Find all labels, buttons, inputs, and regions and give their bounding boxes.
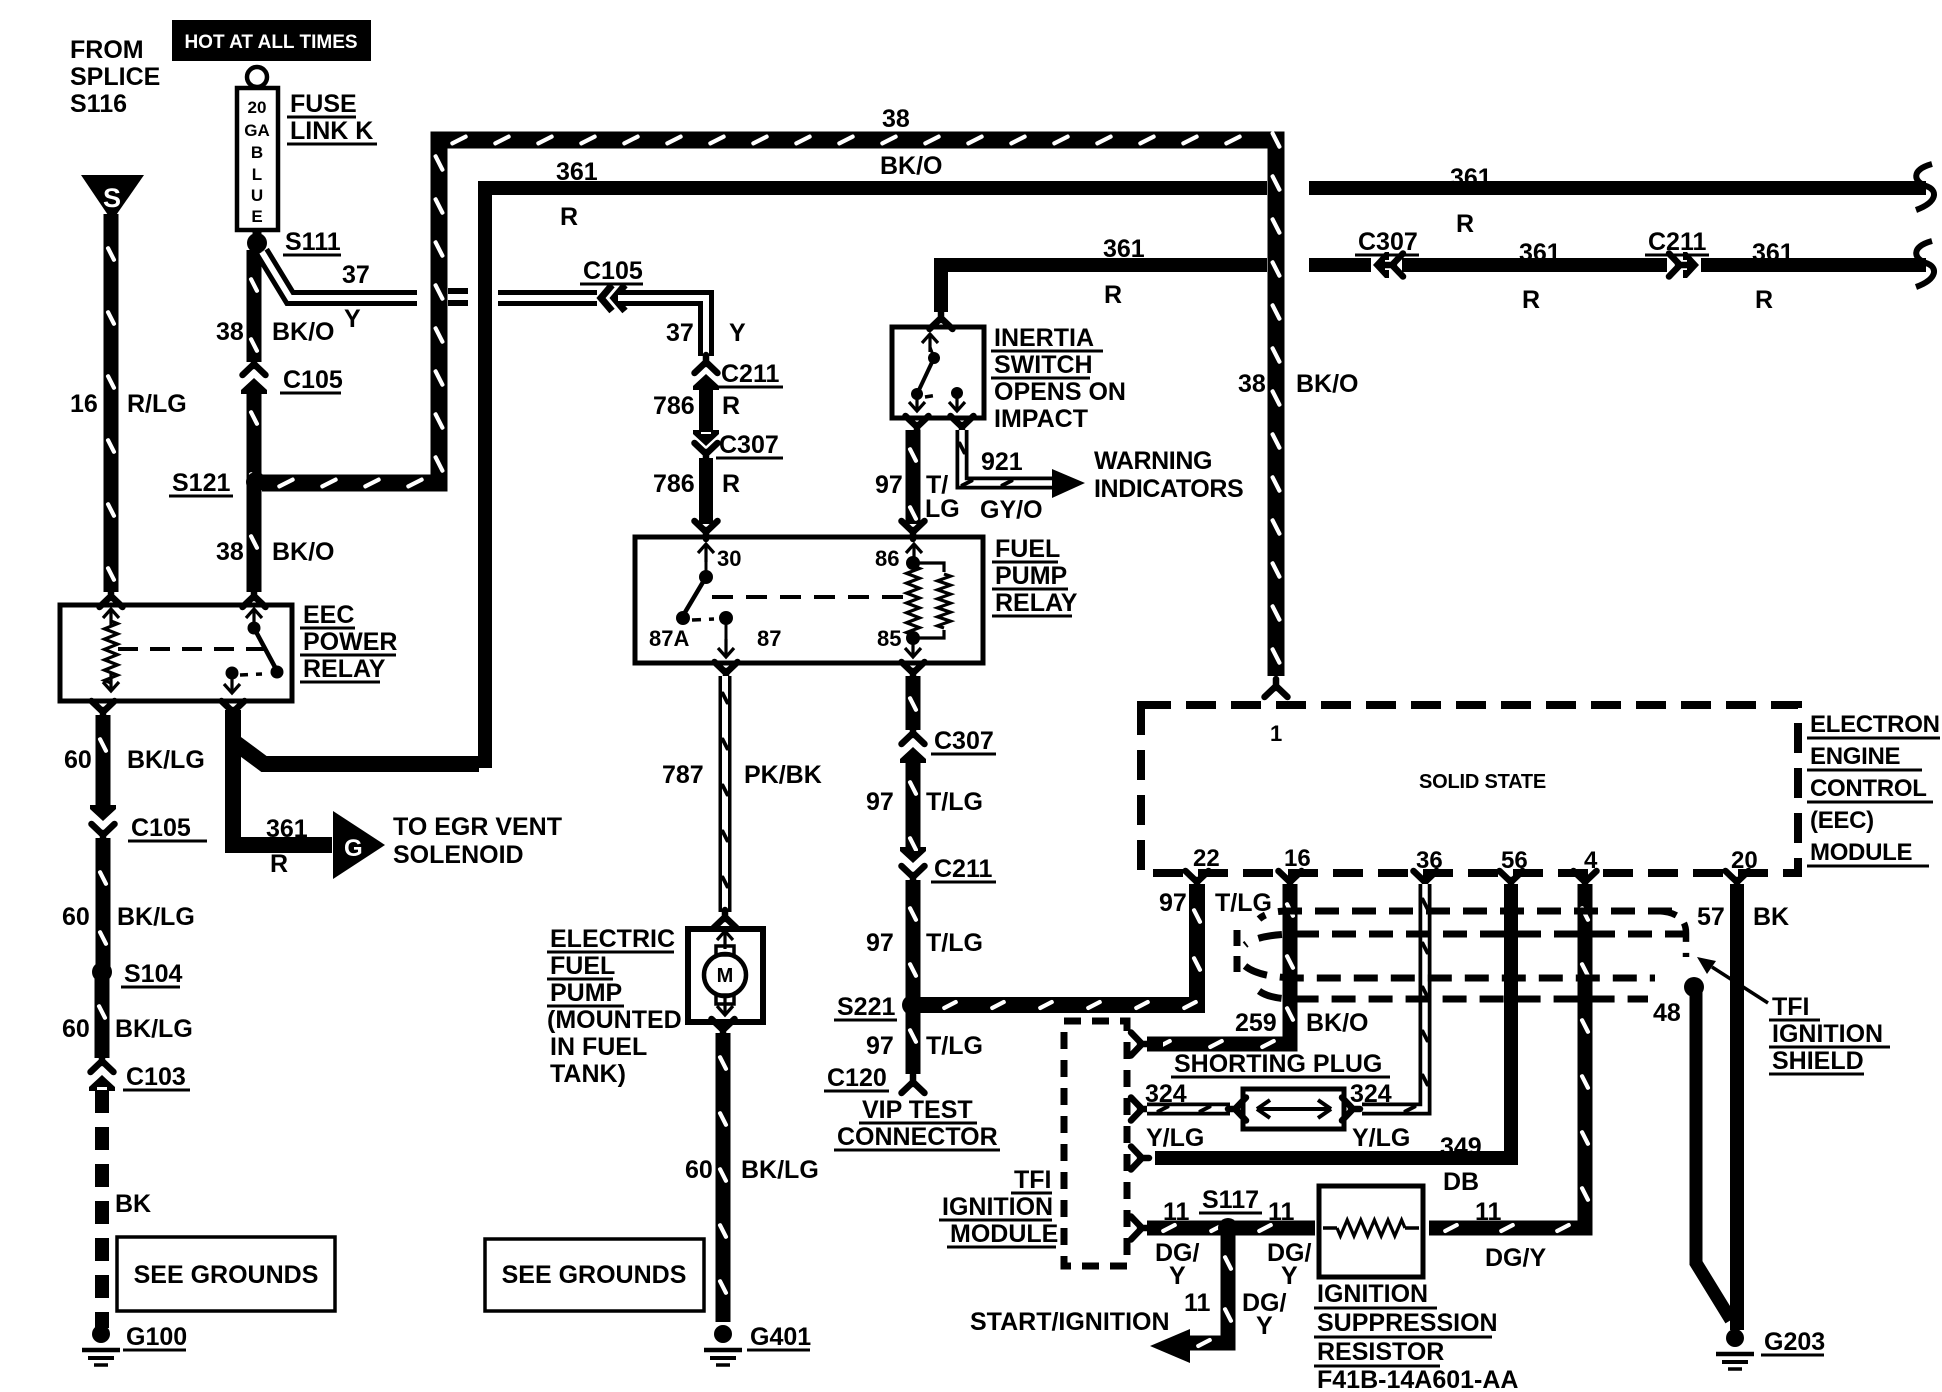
svg-text:22: 22 — [1193, 845, 1220, 872]
svg-text:CONTROL: CONTROL — [1810, 775, 1927, 802]
svg-text:87A: 87A — [649, 626, 689, 651]
svg-text:38: 38 — [882, 105, 910, 133]
fuel pump relay internals: pin 30 switch — [698, 544, 714, 562]
connector C105 on wire 38 — [242, 372, 266, 379]
svg-text:SHIELD: SHIELD — [1772, 1047, 1864, 1075]
svg-text:PUMP: PUMP — [995, 562, 1067, 590]
wire 361 R right of C211 — [1701, 258, 1926, 272]
svg-text:IGNITION: IGNITION — [942, 1193, 1053, 1221]
wire 37 Y right of crossing to C105 — [498, 290, 597, 306]
svg-text:97: 97 — [1159, 889, 1187, 917]
connector C211 on wire 37/786 — [695, 355, 718, 373]
svg-text:B: B — [251, 143, 263, 162]
svg-text:C211: C211 — [721, 360, 779, 388]
svg-text:60: 60 — [685, 1156, 713, 1184]
arrow to start/ignition — [1150, 1329, 1190, 1363]
svg-text:87: 87 — [757, 626, 781, 651]
wire 97 T/LG to C307 — [906, 676, 921, 730]
wire 921 GY/O — [962, 430, 1052, 483]
G arrow to EGR vent solenoid — [333, 811, 385, 879]
svg-text:259: 259 — [1235, 1009, 1277, 1037]
svg-text:C105: C105 — [583, 257, 643, 285]
svg-text:SHORTING PLUG: SHORTING PLUG — [1174, 1050, 1382, 1078]
EEC power relay connectors bottom — [92, 701, 115, 719]
svg-text:HOT AT ALL TIMES: HOT AT ALL TIMES — [184, 32, 357, 53]
svg-text:SPLICE: SPLICE — [70, 63, 160, 91]
svg-text:BK/O: BK/O — [272, 538, 335, 566]
svg-text:IGNITION: IGNITION — [1772, 1020, 1883, 1048]
svg-text:R: R — [722, 470, 740, 498]
svg-text:SEE GROUNDS: SEE GROUNDS — [502, 1261, 687, 1289]
wire 787 PK/BK — [719, 676, 732, 912]
svg-text:R: R — [722, 392, 740, 420]
TFI ignition shield pointer arrow — [1712, 967, 1768, 1003]
connector C211 — [901, 863, 925, 870]
arrow to warning indicators — [1052, 469, 1085, 498]
svg-text:Y: Y — [1281, 1262, 1298, 1290]
svg-text:IMPACT: IMPACT — [994, 405, 1088, 433]
TFI ignition shield dashed outline inner bottom — [1245, 966, 1655, 978]
svg-text:C211: C211 — [934, 855, 992, 883]
svg-text:BK: BK — [115, 1190, 151, 1218]
inertia switch internals — [922, 334, 938, 352]
fuel pump motor symbol — [717, 931, 733, 949]
svg-text:11: 11 — [1163, 1198, 1190, 1226]
svg-text:START/IGNITION: START/IGNITION — [970, 1308, 1170, 1336]
svg-text:60: 60 — [64, 746, 92, 774]
svg-text:LG: LG — [925, 495, 960, 523]
svg-text:R: R — [560, 203, 578, 231]
EEC module dashed box — [1141, 705, 1798, 873]
wire 37 Y from C105 to C211 — [618, 298, 706, 356]
connector at EEC module pin 1 — [1265, 679, 1288, 697]
ground G100 — [92, 1325, 110, 1343]
connector C307 — [901, 741, 925, 748]
svg-text:30: 30 — [717, 546, 741, 571]
svg-text:IN FUEL: IN FUEL — [550, 1033, 647, 1061]
svg-text:C105: C105 — [131, 814, 191, 842]
svg-text:S221: S221 — [837, 993, 895, 1021]
svg-text:OPENS ON: OPENS ON — [994, 378, 1126, 406]
wire 97 T/LG S221 to C120 — [906, 1010, 921, 1074]
svg-text:TFI: TFI — [1772, 993, 1810, 1021]
wire 97 T/LG S221 to EEC pin 22 — [920, 884, 1197, 1005]
TFI ignition shield dashed outline outer top — [1259, 911, 1672, 919]
svg-text:Y: Y — [1169, 1262, 1186, 1290]
connector at fuel pump top — [714, 910, 737, 928]
svg-text:38: 38 — [1238, 370, 1266, 398]
svg-text:R: R — [270, 850, 288, 878]
svg-text:361: 361 — [1103, 235, 1145, 263]
svg-text:VIP TEST: VIP TEST — [862, 1096, 973, 1124]
wire 349 DB pin 56 — [1155, 884, 1511, 1158]
connector C105 chevrons — [601, 285, 612, 311]
wire 361 R to inertia switch — [941, 265, 1267, 312]
wire 38 BK/O loop S121 to EEC module pin 1 — [262, 140, 1276, 676]
wire 361 R from EEC power relay to top run — [233, 710, 479, 764]
connector below fuel pump relay pin 87 — [715, 662, 738, 680]
TFI module connector forks — [1131, 1033, 1149, 1056]
connector C103 — [90, 1069, 114, 1076]
svg-text:TFI: TFI — [1014, 1166, 1052, 1194]
svg-text:BK/O: BK/O — [880, 152, 943, 180]
svg-text:86: 86 — [875, 546, 899, 571]
svg-text:97: 97 — [875, 471, 903, 499]
svg-text:C211: C211 — [1648, 228, 1706, 256]
svg-text:C103: C103 — [126, 1063, 186, 1091]
TFI ignition shield dashed outline outer bottom — [1259, 991, 1648, 999]
splice S221 — [902, 995, 922, 1015]
svg-text:EEC: EEC — [303, 601, 354, 629]
svg-text:TANK): TANK) — [550, 1060, 626, 1088]
wire 786 R from C307 to fuel pump relay — [699, 458, 713, 524]
svg-text:Y: Y — [1256, 1312, 1273, 1340]
TFI ignition shield dashed left bracket — [1234, 930, 1241, 978]
svg-text:C120: C120 — [827, 1064, 887, 1092]
svg-text:361: 361 — [1752, 239, 1794, 267]
svg-text:R: R — [1456, 210, 1474, 238]
wire stub fuse to S111 — [253, 229, 262, 245]
svg-text:L: L — [252, 165, 262, 184]
svg-text:Y/LG: Y/LG — [1146, 1124, 1204, 1152]
svg-text:F41B-14A601-AA: F41B-14A601-AA — [1317, 1366, 1518, 1392]
svg-text:S116: S116 — [70, 90, 127, 118]
svg-text:S117: S117 — [1202, 1186, 1259, 1214]
splice S117 — [1218, 1218, 1238, 1238]
EEC power relay box — [60, 605, 292, 701]
svg-text:786: 786 — [653, 470, 695, 498]
svg-text:57: 57 — [1697, 903, 1725, 931]
svg-text:ELECTRON: ELECTRON — [1810, 711, 1940, 738]
svg-text:PUMP: PUMP — [550, 979, 622, 1007]
wire 361 R between C307 and C211 — [1402, 258, 1667, 272]
connector at fuel pump relay pin 30 — [695, 521, 718, 539]
svg-text:RESISTOR: RESISTOR — [1317, 1338, 1444, 1366]
ignition suppression resistor box — [1319, 1186, 1423, 1277]
svg-text:97: 97 — [866, 929, 894, 957]
hot-at-all-times banner — [172, 20, 371, 61]
EEC pin connectors — [1186, 871, 1209, 889]
wire 259 BK/O pin 16 to TFI module — [1155, 884, 1290, 1044]
wire 11 DG/Y from S117 to start/ignition — [1188, 1233, 1228, 1343]
svg-text:BK/LG: BK/LG — [127, 746, 205, 774]
wire 37 Y from S111 — [262, 252, 417, 298]
svg-text:S111: S111 — [285, 228, 341, 256]
fuel pump relay box — [635, 537, 983, 663]
splice S111 — [247, 233, 267, 253]
svg-text:DB: DB — [1443, 1168, 1479, 1196]
svg-text:WARNING: WARNING — [1094, 447, 1212, 475]
svg-text:(EEC): (EEC) — [1810, 807, 1874, 834]
wire 57 BK pin 20 to G203 — [1730, 884, 1744, 1330]
svg-text:U: U — [251, 186, 263, 205]
svg-text:IGNITION: IGNITION — [1317, 1280, 1428, 1308]
svg-text:R: R — [1755, 286, 1773, 314]
shorting plug box — [1243, 1089, 1344, 1129]
svg-text:BK/LG: BK/LG — [115, 1015, 193, 1043]
wire 16 R/LG vertical — [104, 214, 119, 592]
wire 324 Y/LG left (striped) — [1147, 1103, 1230, 1116]
svg-text:GA: GA — [244, 121, 270, 140]
svg-text:SOLENOID: SOLENOID — [393, 841, 524, 869]
wire 48 to G203 — [1696, 990, 1731, 1320]
TFI shield dashed hook at 57 — [1658, 911, 1686, 957]
wire 11 DG/Y from TFI module with splice S117 — [1147, 1221, 1315, 1236]
svg-text:RELAY: RELAY — [995, 589, 1078, 617]
svg-text:Y: Y — [344, 305, 361, 333]
connector below fuel pump relay pin 85 — [902, 662, 925, 680]
fuel pump relay dashed link — [712, 595, 905, 599]
wire 11 DG/Y pin 4 — [1429, 884, 1585, 1228]
svg-text:11: 11 — [1184, 1289, 1211, 1317]
splice symbol S (from splice S116) — [81, 175, 144, 221]
svg-text:BK/LG: BK/LG — [741, 1156, 819, 1184]
svg-text:INDICATORS: INDICATORS — [1094, 475, 1243, 503]
ground G401 — [714, 1325, 732, 1343]
fuse link K symbol — [247, 67, 267, 87]
svg-text:60: 60 — [62, 903, 90, 931]
svg-text:361: 361 — [1450, 164, 1492, 192]
svg-text:T/LG: T/LG — [926, 788, 983, 816]
inertia switch box — [892, 327, 984, 418]
svg-text:Y/LG: Y/LG — [1352, 1124, 1410, 1152]
svg-text:37: 37 — [666, 319, 694, 347]
svg-text:85: 85 — [877, 626, 901, 651]
wire 786 R between C211 and C307 — [699, 386, 713, 432]
TFI ignition shield dashed outline inner top — [1245, 934, 1689, 945]
svg-text:RELAY: RELAY — [303, 655, 386, 683]
svg-text:FUSE: FUSE — [290, 90, 357, 118]
wire 38 BK/O from C105 to relay — [247, 388, 262, 592]
connector below inertia switch right — [951, 416, 974, 434]
svg-text:20: 20 — [248, 98, 267, 117]
connector C307 on 361 R — [1373, 252, 1389, 278]
svg-text:16: 16 — [70, 390, 98, 418]
svg-text:T/LG: T/LG — [926, 1032, 983, 1060]
svg-text:38: 38 — [216, 538, 244, 566]
svg-text:20: 20 — [1731, 847, 1758, 874]
svg-text:PK/BK: PK/BK — [744, 761, 822, 789]
svg-text:INERTIA: INERTIA — [994, 324, 1094, 352]
svg-text:R: R — [1522, 286, 1540, 314]
crossing mark = — [448, 288, 468, 294]
svg-text:324: 324 — [1350, 1080, 1392, 1108]
svg-text:ELECTRIC: ELECTRIC — [550, 925, 675, 953]
svg-text:SOLID STATE: SOLID STATE — [1419, 771, 1546, 793]
svg-text:S: S — [103, 183, 121, 213]
svg-text:G: G — [344, 835, 363, 862]
wire continuation squiggle — [1916, 241, 1934, 287]
wire 361 R top run right of crossing — [1309, 181, 1926, 195]
svg-text:787: 787 — [662, 761, 704, 789]
svg-text:R: R — [1104, 281, 1122, 309]
svg-text:LINK K: LINK K — [290, 117, 373, 145]
wire 97 T/LG C307 to C211 — [906, 758, 921, 852]
svg-text:60: 60 — [62, 1015, 90, 1043]
wire 97 T/LG to fuel pump relay — [906, 430, 921, 524]
wire 60 BK/LG C105 to S104 — [96, 838, 111, 968]
connector C307 on wire 786 — [693, 430, 719, 446]
svg-text:921: 921 — [981, 448, 1023, 476]
electric fuel pump box — [688, 929, 763, 1022]
svg-text:G401: G401 — [750, 1323, 811, 1351]
connector C120 VIP test connector — [902, 1075, 925, 1093]
EEC power relay connectors top — [100, 589, 123, 607]
svg-text:48: 48 — [1653, 999, 1681, 1027]
svg-text:SEE GROUNDS: SEE GROUNDS — [134, 1261, 319, 1289]
node 48 dot — [1684, 977, 1704, 997]
svg-text:97: 97 — [866, 788, 894, 816]
svg-text:BK: BK — [1753, 903, 1789, 931]
svg-text:C307: C307 — [934, 727, 994, 755]
see grounds box middle — [485, 1239, 704, 1311]
wire 60 BK/LG S104 to C103 — [95, 976, 110, 1058]
svg-text:361: 361 — [266, 815, 308, 843]
svg-text:S104: S104 — [124, 960, 182, 988]
svg-text:38: 38 — [216, 318, 244, 346]
svg-text:MODULE: MODULE — [1810, 839, 1912, 866]
svg-text:37: 37 — [342, 261, 370, 289]
connector C105 on left column — [91, 821, 115, 828]
wire continuation squiggle — [1916, 164, 1934, 210]
wire 324 Y/LG pin 36 (striped) — [1362, 884, 1425, 1109]
svg-text:Y: Y — [729, 319, 746, 347]
wire 361 R branch to EGR solenoid — [233, 738, 332, 845]
svg-text:786: 786 — [653, 392, 695, 420]
TFI ignition module dashed box — [1064, 1021, 1127, 1266]
svg-text:BK/O: BK/O — [272, 318, 335, 346]
wire 60 BK/LG pump to ground — [716, 1033, 731, 1322]
connector at fuel pump relay pin 86 — [902, 521, 925, 539]
connector C211 on 361 R — [1669, 254, 1687, 277]
svg-text:C307: C307 — [1358, 228, 1418, 256]
ground G203 — [1726, 1329, 1744, 1347]
svg-text:S121: S121 — [172, 469, 230, 497]
svg-text:E: E — [251, 207, 262, 226]
svg-text:R/LG: R/LG — [127, 390, 187, 418]
wire 60 BK/LG below relay — [96, 715, 111, 810]
svg-text:ENGINE: ENGINE — [1810, 743, 1901, 770]
svg-text:BK/LG: BK/LG — [117, 903, 195, 931]
svg-text:T/LG: T/LG — [926, 929, 983, 957]
wire BK dashed to G100 — [95, 1090, 109, 1328]
svg-text:C307: C307 — [719, 431, 779, 459]
svg-text:361: 361 — [556, 158, 598, 186]
svg-text:BK/O: BK/O — [1296, 370, 1359, 398]
svg-text:349: 349 — [1440, 1133, 1482, 1161]
splice S104 — [92, 962, 112, 982]
svg-text:324: 324 — [1145, 1080, 1187, 1108]
connector below inertia switch left — [906, 416, 929, 434]
svg-text:MODULE: MODULE — [950, 1220, 1058, 1248]
svg-text:SUPPRESSION: SUPPRESSION — [1317, 1309, 1498, 1337]
EEC power relay internals — [103, 609, 119, 627]
svg-text:CONNECTOR: CONNECTOR — [837, 1123, 998, 1151]
svg-text:FROM: FROM — [70, 36, 144, 64]
svg-text:BK/O: BK/O — [1306, 1009, 1369, 1037]
svg-text:C105: C105 — [283, 366, 343, 394]
see grounds box left — [117, 1237, 335, 1311]
svg-text:POWER: POWER — [303, 628, 397, 656]
svg-text:(MOUNTED: (MOUNTED — [547, 1006, 682, 1034]
svg-text:FUEL: FUEL — [995, 535, 1060, 563]
svg-text:361: 361 — [1519, 239, 1561, 267]
svg-text:1: 1 — [1270, 721, 1282, 746]
svg-text:97: 97 — [866, 1032, 894, 1060]
svg-text:DG/Y: DG/Y — [1485, 1244, 1546, 1272]
svg-text:TO EGR VENT: TO EGR VENT — [393, 813, 562, 841]
svg-text:11: 11 — [1475, 1198, 1502, 1226]
svg-text:11: 11 — [1268, 1198, 1295, 1226]
wire 97 T/LG C211 to S221 — [906, 880, 921, 1000]
fuel pump relay coil pins 86/85 — [906, 544, 922, 562]
splice S121 — [246, 472, 266, 492]
svg-text:GY/O: GY/O — [980, 496, 1043, 524]
connector at inertia switch top — [930, 311, 953, 329]
svg-text:M: M — [717, 965, 734, 987]
svg-text:G203: G203 — [1764, 1328, 1825, 1356]
svg-text:G100: G100 — [126, 1323, 187, 1351]
wire 38 BK/O from S111 down to C105 — [247, 250, 262, 362]
svg-text:SWITCH: SWITCH — [994, 351, 1093, 379]
svg-text:16: 16 — [1284, 845, 1311, 872]
connector at fuel pump bottom — [712, 1019, 735, 1037]
svg-text:FUEL: FUEL — [550, 952, 615, 980]
wire 259 stub from TFI module — [1147, 1037, 1163, 1052]
